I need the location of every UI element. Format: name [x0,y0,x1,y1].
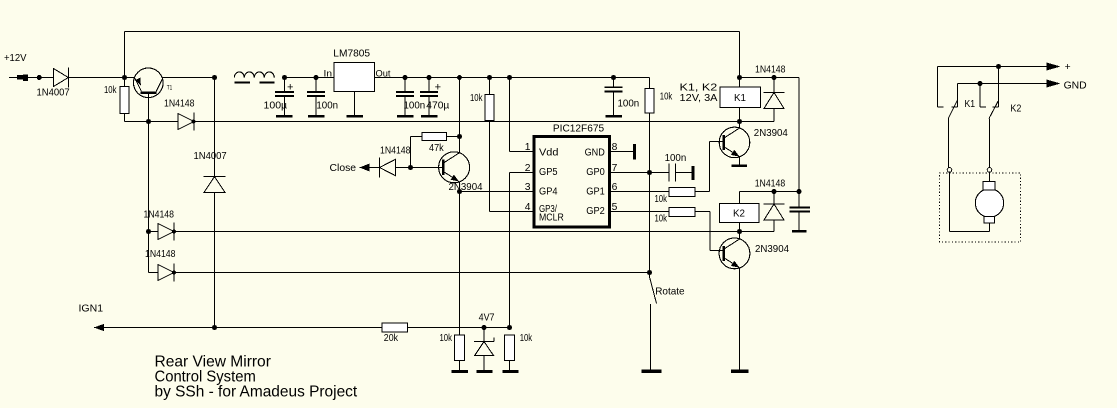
label K2 contact [1010,104,1021,115]
ground LM7805 [346,92,363,118]
resistor 10k (T1 base) [104,78,129,122]
wire C2 node to regulator In [316,77,334,79]
node Q0 base junction [408,165,413,170]
wire zener node to 10k node [484,327,510,329]
svg-text:100µ: 100µ [264,101,288,112]
terminal IGN1 arrow [79,303,383,331]
node Q0 emitter junction [457,189,462,194]
svg-text:4V7: 4V7 [479,312,495,323]
svg-text:GP2: GP2 [586,206,605,217]
node base/diode A junction [146,229,151,234]
wire GP0-sense rail [175,272,650,274]
node +5V/10k junction [611,75,616,80]
svg-text:T1: T1 [167,85,173,92]
wire base node to Q0 [411,167,444,169]
wire Q0 emitter [459,181,461,191]
wire Q2 emitter [738,268,740,370]
svg-text:1N4007: 1N4007 [194,151,227,162]
ic U1 PIC12F675 [534,124,610,227]
wire D3 to IGN1 rail [214,193,216,328]
contact K2 blade [989,101,998,168]
resistor 10k (GP2 series) [655,208,711,225]
wire motor left loop [950,172,990,231]
pin 2 GP5 wire [510,163,535,174]
wire C3 to C4 [405,77,429,79]
node K2 +12V junction [797,189,802,194]
svg-text:LM7805: LM7805 [333,48,370,59]
node T1 base junction [146,119,151,124]
svg-text:100n: 100n [316,101,338,112]
svg-text:7: 7 [612,163,618,174]
svg-text:Close: Close [330,163,357,174]
relay K1 [720,78,760,122]
capacitor C2 100n [307,78,338,118]
terminal Close arrow [330,163,380,174]
node main rail x214 [212,75,217,80]
svg-text:by SSh - for Amadeus Project: by SSh - for Amadeus Project [155,384,358,401]
svg-text:1N4007: 1N4007 [37,88,70,99]
svg-text:GP4: GP4 [539,187,558,198]
wire GP1 riser [709,142,711,192]
svg-text:10k: 10k [655,214,668,225]
mirror assembly dotted box [940,173,1021,242]
wire Q1 base [710,141,724,143]
node C4 junction [427,75,432,80]
svg-text:Rotate: Rotate [655,287,685,298]
zener D9 4V7 [474,312,495,370]
wire +12V drop right [798,78,800,192]
relay K2 [720,192,759,232]
svg-text:100n: 100n [404,101,426,112]
wire Q0 collector [459,137,461,154]
contact K1 fixed left [938,67,944,108]
svg-text:2: 2 [525,163,531,174]
capacitor C4 470u [420,78,449,118]
wire T1 base vertical [148,122,150,273]
capacitor C1 100u [264,78,295,118]
node Vdd rail junction [507,75,512,80]
svg-text:K2: K2 [1010,104,1021,115]
node MCLR rail junction [487,75,492,80]
svg-text:10k: 10k [655,194,668,205]
wire Q1 emitter [738,157,740,165]
svg-text:GP1: GP1 [586,187,605,198]
node C3 junction [403,75,408,80]
wire main rail to x214 drop [214,78,216,177]
resistor 10k (GP1 series) [655,187,710,205]
ground zener [476,370,492,373]
pin 1 Vdd wire [510,142,535,153]
svg-text:1N4148: 1N4148 [755,179,786,190]
pin 3 GP4 wire [460,182,535,193]
pin 7 GP0 wire [610,163,650,174]
wire D6 to base node [396,167,411,169]
wire motor right terminal to brush [989,172,991,181]
node D8 top junction [772,189,777,194]
svg-text:+: + [1065,62,1071,73]
wire Q2 collector [738,232,740,240]
wire 10k to base rail corner [125,121,149,123]
node IGN1 x214 junction [212,325,217,330]
wire GP5-sense rail [175,231,740,233]
pin 6 GP1 wire [610,182,670,193]
transistor Q1 2N3904 [719,127,788,158]
svg-text:20k: 20k [384,333,399,344]
node K2/Q2 junction [737,229,742,234]
node D7 top junction [772,75,777,80]
node zener junction [482,325,487,330]
resistor 47k [411,132,460,153]
svg-text:MCLR: MCLR [539,213,564,224]
wire +12V K1 segment [740,77,800,79]
pin 8 GND wire [610,142,636,160]
node 10k-B junction [507,325,512,330]
svg-text:47k: 47k [429,143,444,154]
svg-text:4: 4 [525,202,531,213]
svg-text:1N4148: 1N4148 [144,209,175,220]
node GP0 junction [647,170,652,175]
diode D8 1N4148 (K2 flyback) [740,179,786,232]
pin 4 GP3/MCLR wire [490,202,535,213]
svg-text:470µ: 470µ [426,101,449,112]
svg-text:3: 3 [525,182,531,193]
transistor T1 (PNP) [125,68,215,98]
power input terminal +12V [4,53,28,81]
diode D3 1N4007 (vertical) [194,151,227,193]
diode D4 1N4148 [144,209,177,240]
terminal + arrow [1047,62,1071,73]
capacitor C7 [790,192,811,233]
node K1 top junction [737,75,742,80]
svg-text:1: 1 [525,142,531,153]
wire Vdd riser [509,78,511,152]
svg-text:K2: K2 [733,209,745,220]
svg-text:1N4148: 1N4148 [164,98,195,109]
node T1 emitter junction [122,75,127,80]
resistor 10k (divider B) [504,333,532,370]
svg-text:6: 6 [612,182,618,193]
wire Q1 collector [739,122,741,129]
diode D7 1N4148 (K1 flyback) [740,65,786,122]
wire GP5 drop to IGN divider [509,173,511,328]
node C2 junction [314,75,319,80]
node K1/Q1 junction [737,119,742,124]
svg-text:K1: K1 [965,99,976,110]
terminal GND arrow [1047,80,1087,92]
contact K1 fixed right [952,84,958,108]
terminal motor right [987,168,992,173]
wire motor GND rail [958,83,1047,85]
svg-text:8: 8 [612,142,618,153]
wire regulator Out to C3 node [375,77,406,79]
diode D6 1N4148 (to Close) [380,145,411,177]
inductor L1 [234,72,274,84]
wire D1 to T1 emitter node [69,77,125,79]
wire T1 base drop [148,94,150,122]
contact K2 fixed left [980,84,986,108]
resistor 10k (GP0 pullup) [645,78,673,173]
wire GP2 drop [710,212,724,251]
switch Rotate [647,173,685,370]
title text [155,353,358,400]
resistor 10k (divider A) [440,192,465,371]
svg-text:1N4148: 1N4148 [380,145,411,156]
node K2 GND drop junction [978,81,983,86]
node input junction [37,75,42,80]
wire K2 top rail [740,191,800,193]
wire +5V rail [429,77,650,79]
diode D1 1N4007 [37,68,70,99]
resistor 20k [382,323,484,344]
capacitor C3 100n [396,78,425,118]
ground Rotate [642,370,662,373]
svg-text:10k: 10k [660,92,673,103]
svg-text:2N3904: 2N3904 [755,244,789,255]
voltage regulator U2 LM7805 [324,48,391,91]
wire 47k left drop [410,137,412,168]
capacitor C5 100n (on +5V) [605,78,640,118]
svg-text:10k: 10k [440,333,453,344]
svg-text:K1: K1 [734,93,746,104]
wire +5V to 47k node [459,78,461,137]
svg-text:GND: GND [585,147,605,158]
transistor Q0 2N3904 [439,152,483,193]
contact K2 fixed right [993,67,999,108]
wire base rail to K1 node [195,121,740,123]
contact K1 blade [948,100,957,168]
svg-text:10k: 10k [470,93,483,104]
wire top rail riser left [124,32,126,78]
motor M1 [975,182,1003,223]
ground Q2 emitter [731,370,749,373]
svg-text:5: 5 [612,202,618,213]
wire top +12V rail [125,31,740,33]
resistor 10k (MCLR pullup) [470,78,494,212]
wire L1 node to C2 node [285,77,317,79]
ground Q1 emitter [731,164,747,167]
wire top rail riser right [739,32,741,78]
ground 10k-B [502,370,518,373]
svg-text:10k: 10k [520,333,533,344]
pin 5 GP2 wire [610,202,670,213]
transistor Q2 2N3904 [719,238,789,269]
svg-text:GP0: GP0 [586,167,605,178]
ground 10k-A [452,370,469,373]
svg-text:PIC12F675: PIC12F675 [553,124,604,135]
wire input to diode [28,77,54,79]
svg-text:12V, 3A: 12V, 3A [680,93,718,104]
node K2 + drop junction [996,64,1001,69]
svg-text:GP5: GP5 [539,167,558,178]
terminal motor left [947,168,952,173]
svg-text:1N4148: 1N4148 [755,65,786,76]
svg-text:+: + [435,81,441,93]
label K1 contact [965,99,976,110]
svg-text:In: In [324,69,333,79]
label K1,K2 rating [680,83,718,104]
svg-text:+: + [287,81,293,93]
diode D2 1N4148 [149,98,196,130]
node L1 out junction [282,75,287,80]
svg-text:Vdd: Vdd [539,147,558,158]
svg-text:100n: 100n [665,153,687,164]
wire motor + rail [938,66,1047,68]
svg-text:10k: 10k [104,85,117,96]
svg-text:100n: 100n [618,98,640,109]
capacitor C6 100n (GP0) [650,153,695,181]
svg-text:+12V: +12V [4,53,27,64]
svg-text:GND: GND [1064,80,1087,91]
diode D5 1N4148 [145,249,176,282]
svg-text:2N3904: 2N3904 [754,128,788,139]
svg-text:1N4148: 1N4148 [145,249,176,260]
node 47k/collector junction [457,75,462,80]
svg-text:IGN1: IGN1 [79,303,104,314]
node 47k right junction [457,134,462,139]
